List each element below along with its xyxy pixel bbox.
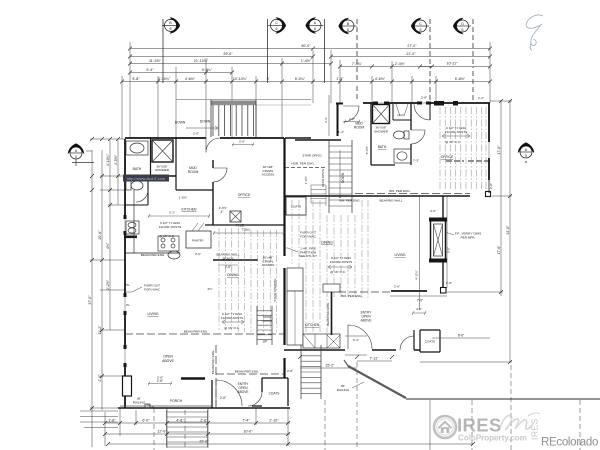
svg-text:6'-0": 6'-0" xyxy=(142,419,150,423)
svg-text:UP: UP xyxy=(263,340,267,344)
stair gray band xyxy=(211,101,256,106)
svg-text:ColoProperty.com: ColoProperty.com xyxy=(458,434,527,443)
svg-text:OPN'G: OPN'G xyxy=(262,319,272,323)
svg-text:FOR HVAC: FOR HVAC xyxy=(144,287,161,291)
left dim labels rotated xyxy=(88,153,118,381)
svg-text:4½": 4½" xyxy=(207,287,212,291)
svg-text:7'-3": 7'-3" xyxy=(413,159,419,163)
misc small interior dim labels left unit xyxy=(126,132,293,380)
dim line lowest row xyxy=(122,81,490,83)
left ext y260 xyxy=(90,259,125,261)
window glazing top right xyxy=(376,102,428,104)
dim line 9'-4 row xyxy=(130,72,232,74)
svg-text:ROOM: ROOM xyxy=(188,170,199,174)
dim line 50'-0" top xyxy=(130,48,490,50)
svg-text:ABOVE: ABOVE xyxy=(361,319,372,323)
svg-text:50'-0": 50'-0" xyxy=(301,44,311,48)
wall fp column x443 xyxy=(442,196,444,288)
beam dashed y334 xyxy=(125,333,284,335)
link box blue xyxy=(123,175,169,182)
left ext y205 xyxy=(108,204,125,206)
office R joists xyxy=(440,107,486,191)
stair arrow line xyxy=(186,126,218,130)
svg-text:8'-6": 8'-6" xyxy=(458,334,464,338)
leader furr L xyxy=(125,287,142,292)
left ext y376 xyxy=(100,375,125,377)
wall entry R east x415 xyxy=(413,330,415,350)
bottom vert dash x472 xyxy=(471,400,473,450)
svg-text:22'-0": 22'-0" xyxy=(199,440,209,444)
clo doors xyxy=(396,104,408,116)
stair R arrow xyxy=(338,150,342,198)
extension line x232 xyxy=(231,67,233,138)
right dim col x501 xyxy=(500,100,502,296)
svg-text:RAILING: RAILING xyxy=(133,400,146,404)
interior dim line 7-0 xyxy=(390,295,447,297)
svg-text:6: 6 xyxy=(462,28,464,32)
svg-text:DOWN: DOWN xyxy=(200,120,211,124)
drop line B2 xyxy=(356,19,358,101)
svg-text:6'-4": 6'-4" xyxy=(353,338,359,342)
wall bottom y408 xyxy=(118,407,290,409)
DIMENSION FRAMEWORK TOP xyxy=(122,42,490,139)
right ext y101 xyxy=(490,100,512,102)
bottom vert x136 xyxy=(135,410,137,425)
sink bath R xyxy=(394,149,411,163)
svg-text:7'-4": 7'-4" xyxy=(242,419,250,423)
svg-text:4'-6": 4'-6" xyxy=(416,307,422,311)
beam vertical x216 xyxy=(215,345,217,408)
wall toilet nook xyxy=(125,176,148,205)
svg-text:RAILING: RAILING xyxy=(337,388,350,392)
joist arrow dining L xyxy=(222,320,244,324)
marker C2 xyxy=(411,18,429,34)
svg-text:2'-6": 2'-6" xyxy=(225,265,231,269)
wall stairs R bottom y196 xyxy=(285,195,412,197)
interior dim line 8-6 xyxy=(432,337,490,339)
svg-text:@ 16" O.C.: @ 16" O.C. xyxy=(445,140,461,144)
svg-text:7'-0": 7'-0" xyxy=(417,299,423,303)
left ext y330 xyxy=(100,329,125,331)
porch post left xyxy=(123,376,132,396)
door arc coats L xyxy=(248,392,262,406)
svg-text:BM. PER ENG.: BM. PER ENG. xyxy=(339,199,360,203)
entry R dim row xyxy=(345,335,367,337)
door arc office L xyxy=(213,168,227,182)
svg-text:1'-4½": 1'-4½" xyxy=(301,59,312,63)
leader FP xyxy=(445,232,454,235)
watermark house icon xyxy=(438,422,451,428)
FIREPLACE xyxy=(429,218,447,263)
dim vline x447 living xyxy=(446,196,448,288)
svg-text:3'-1": 3'-1" xyxy=(169,211,175,215)
svg-text:5'-5½": 5'-5½" xyxy=(365,146,369,154)
kitchen lower counters R xyxy=(303,334,340,348)
wall top left y138 xyxy=(125,137,284,139)
svg-text:7'-0¼": 7'-0¼" xyxy=(241,228,250,232)
svg-text:17'-0": 17'-0" xyxy=(497,145,501,155)
svg-text:21'-0": 21'-0" xyxy=(406,52,416,56)
marker A left leader xyxy=(72,161,94,163)
svg-text:29'-0": 29'-0" xyxy=(223,52,233,56)
svg-text:FLOOR JOISTS: FLOOR JOISTS xyxy=(159,225,181,229)
DINING L joists xyxy=(219,228,277,332)
right ext y292 xyxy=(447,291,503,293)
marker A right leader xyxy=(446,161,526,163)
bottom vert dash x580 xyxy=(579,400,581,450)
bottom vert x167 xyxy=(166,408,168,448)
svg-text:34'-6": 34'-6" xyxy=(506,225,510,235)
kitchen stove R xyxy=(323,284,340,292)
wall office bottom y225 xyxy=(205,224,284,226)
svg-text:http://www.ArchT.com: http://www.ArchT.com xyxy=(127,176,166,181)
svg-text:BM. PER ENG.: BM. PER ENG. xyxy=(389,189,410,193)
marker drop lines xyxy=(163,19,473,101)
svg-text:STAIR OPN'G: STAIR OPN'G xyxy=(302,154,322,158)
wall right outer x489 xyxy=(488,103,490,180)
svg-text:4'-11½": 4'-11½" xyxy=(415,270,419,280)
svg-text:SHOWER: SHOWER xyxy=(374,129,389,133)
wall entry coats xyxy=(212,378,288,408)
porch post mid xyxy=(145,404,150,408)
wall clo R xyxy=(393,104,411,120)
small square x443 y288 xyxy=(441,288,447,294)
svg-text:@ 16" O.C.: @ 16" O.C. xyxy=(159,234,175,238)
svg-text:C: C xyxy=(419,22,422,26)
left ext y176 xyxy=(100,175,125,177)
door arc mudroom R xyxy=(343,106,359,122)
svg-text:9'-4": 9'-4" xyxy=(146,68,154,72)
extension line x392 xyxy=(391,61,393,103)
svg-text:2'-8": 2'-8" xyxy=(446,281,452,285)
extension line x282 xyxy=(281,58,283,138)
shower L xyxy=(152,140,173,162)
porch rail y406 xyxy=(120,405,212,407)
svg-text:IRES: IRES xyxy=(530,418,540,440)
svg-text:FOR HVAC: FOR HVAC xyxy=(300,234,317,238)
svg-text:2'-10¼": 2'-10¼" xyxy=(158,77,171,81)
svg-text:PORCH: PORCH xyxy=(170,399,183,403)
bottom vert x288 xyxy=(287,408,289,446)
wall bath divider x150 xyxy=(150,138,152,176)
STAIRS RIGHT xyxy=(329,140,352,213)
svg-text:BEAM PER ENG.: BEAM PER ENG. xyxy=(211,350,215,375)
svg-text:3'-6": 3'-6" xyxy=(324,117,328,123)
svg-text:7'-11": 7'-11" xyxy=(370,357,380,361)
bottom dim labels xyxy=(108,357,379,444)
svg-text:6'-8½": 6'-8½" xyxy=(455,77,466,81)
svg-text:CLO.: CLO. xyxy=(397,113,404,117)
shower R xyxy=(373,105,390,124)
signature squiggle xyxy=(526,15,543,50)
svg-text:SHOWER: SHOWER xyxy=(155,168,170,172)
stair sides xyxy=(211,100,256,137)
left ext y150 xyxy=(86,150,92,152)
svg-text:BATH: BATH xyxy=(378,145,387,149)
tick marks top dims xyxy=(120,47,492,84)
svg-text:6: 6 xyxy=(170,27,172,31)
svg-text:4'-5½": 4'-5½" xyxy=(114,154,118,165)
svg-text:BATH: BATH xyxy=(133,167,142,171)
wall pier kitchen left xyxy=(124,236,137,239)
svg-text:BEAM PER ENG.: BEAM PER ENG. xyxy=(235,370,260,374)
wall office left x213 xyxy=(212,160,214,225)
svg-text:6'-0": 6'-0" xyxy=(447,247,451,253)
wall bench y260 xyxy=(213,259,258,261)
dim line mid markers xyxy=(282,63,331,65)
coats R closet xyxy=(286,197,306,215)
extension line x372 xyxy=(371,76,373,103)
door arc entry R xyxy=(348,325,372,349)
bottom dim row1 y423 xyxy=(105,422,290,424)
svg-text:2'-6": 2'-6" xyxy=(220,396,226,400)
svg-text:OFFICE: OFFICE xyxy=(441,155,454,159)
KITCHEN R counters xyxy=(287,268,340,348)
svg-text:2'-2": 2'-2" xyxy=(478,96,484,100)
door arc toilet nook xyxy=(136,190,148,202)
svg-text:5'-8": 5'-8" xyxy=(132,77,140,81)
svg-text:PANTRY: PANTRY xyxy=(192,239,204,243)
left dim col x118 xyxy=(117,140,119,205)
joist arrow dining R xyxy=(328,265,352,269)
interior dim chain mud L xyxy=(232,143,254,147)
extension line x256 xyxy=(255,76,257,136)
wall porch beam y380 xyxy=(181,377,205,379)
wall living R bottom y291 xyxy=(391,290,427,292)
svg-text:2'-8": 2'-8" xyxy=(157,376,163,380)
kitchen island R xyxy=(287,268,303,291)
beam wall vertical x331 xyxy=(331,292,333,335)
interior dim chain kitchen L xyxy=(148,214,210,218)
railing diagonal inner xyxy=(344,360,348,366)
interior dim chain porch xyxy=(148,382,172,386)
svg-text:@ 16" O.C.: @ 16" O.C. xyxy=(224,326,240,330)
interior dim line 6-4 xyxy=(345,354,367,356)
bottom vert x105 xyxy=(104,412,106,446)
svg-text:4'-6½": 4'-6½" xyxy=(375,77,386,81)
bottom vert dash x511 xyxy=(510,365,512,450)
svg-text:2'-8": 2'-8" xyxy=(489,183,493,189)
bottom dim row2 y434 xyxy=(105,433,290,435)
bottom dim right y362b xyxy=(300,367,357,369)
left ticks xyxy=(90,137,120,410)
joist arrow office R xyxy=(442,134,470,138)
svg-text:DOWN: DOWN xyxy=(175,121,186,125)
marker A1 xyxy=(305,17,323,33)
svg-text:FLUE: FLUE xyxy=(236,224,245,228)
extension line left edge xyxy=(129,42,131,139)
wall kitchen bottom y253 xyxy=(125,252,180,254)
svg-text:SEE DTL 5/7: SEE DTL 5/7 xyxy=(299,254,317,258)
wall mudroom R west x337.5 xyxy=(336,104,343,137)
dark corner block top right2 xyxy=(453,101,458,106)
window sill blocks top right wall xyxy=(373,102,431,105)
PANTRY xyxy=(186,223,211,248)
svg-text:17'-6": 17'-6" xyxy=(497,245,501,255)
svg-text:2'-10": 2'-10" xyxy=(269,419,279,423)
bottom vert dash x430 xyxy=(429,400,431,450)
dim line 21'-0" right xyxy=(331,56,490,58)
right ext y362 xyxy=(420,361,512,363)
dim vline x329 mudroom xyxy=(328,95,330,136)
beam dashed y374 xyxy=(216,373,284,375)
bottom vert x256 xyxy=(255,408,257,425)
toilet bath L xyxy=(126,181,143,190)
svg-text:2'-8": 2'-8" xyxy=(349,117,355,121)
svg-text:5: 5 xyxy=(525,154,527,158)
door arc mudroom L xyxy=(206,138,220,153)
svg-text:4'-6½": 4'-6½" xyxy=(185,77,196,81)
marker B1 xyxy=(162,17,180,33)
marker A left xyxy=(68,143,84,159)
interior dim chain office L xyxy=(213,231,285,235)
svg-text:20'-6": 20'-6" xyxy=(98,230,102,240)
svg-text:COATS: COATS xyxy=(269,392,280,396)
dark corner block top right xyxy=(434,101,444,106)
drop line B1 xyxy=(162,19,164,83)
wall office R bottom y196 xyxy=(412,195,470,197)
svg-text:BM. PER ENG.: BM. PER ENG. xyxy=(341,294,362,298)
interior dim chain entry R xyxy=(412,311,426,315)
svg-text:10'-10¼": 10'-10¼" xyxy=(233,77,248,81)
right ticks xyxy=(499,99,512,364)
marker D1 xyxy=(453,18,471,34)
right dim col x510 xyxy=(509,100,511,362)
left ext y408 xyxy=(90,407,120,409)
wall left outer x125 xyxy=(124,139,126,408)
KITCHEN L xyxy=(126,190,180,259)
extension line x436 xyxy=(435,76,437,103)
svg-text:6: 6 xyxy=(276,27,278,31)
extension line x158 xyxy=(157,76,159,139)
extension line x412 xyxy=(411,76,413,103)
top dimension labels xyxy=(132,44,465,81)
svg-text:2'-6": 2'-6" xyxy=(239,140,245,144)
wall entry R bottom y350 xyxy=(284,349,420,351)
drop line A1 xyxy=(324,19,326,83)
dim line right wing upper xyxy=(340,66,432,68)
svg-text:21'-10¾": 21'-10¾" xyxy=(194,59,209,63)
svg-text:10'-11": 10'-11" xyxy=(447,62,459,66)
svg-text:4'-0½": 4'-0½" xyxy=(219,206,227,210)
stair rail line y99 xyxy=(176,99,311,101)
extension line right edge x490 xyxy=(489,42,491,103)
drop line C1 xyxy=(267,19,269,83)
svg-text:27'-0": 27'-0" xyxy=(407,44,417,48)
window glazing right wall xyxy=(488,142,490,158)
svg-text:2'-8": 2'-8" xyxy=(421,96,427,100)
bottom vert dash x325 xyxy=(324,400,326,450)
extension line x206 xyxy=(205,58,207,138)
window glazing left wall xyxy=(124,218,126,366)
interior dim chain mud R xyxy=(344,120,360,124)
wall top right y103 xyxy=(363,102,490,104)
svg-text:4'-6": 4'-6" xyxy=(430,209,436,213)
bench dim line xyxy=(218,264,238,266)
kitchen sink L xyxy=(126,221,139,234)
wall bath R east x411 xyxy=(410,103,412,165)
door arc hall top R xyxy=(414,104,430,120)
kitchen cabinets column R xyxy=(287,291,303,345)
RIGHT SIDE DIMENSIONS xyxy=(420,100,512,362)
left ext y139 xyxy=(90,138,125,140)
drop line C2 xyxy=(429,19,431,100)
right dim labels xyxy=(497,145,510,255)
hall small treads xyxy=(311,185,326,206)
stairs R2 bottom xyxy=(301,345,321,399)
marker B2 xyxy=(338,18,356,34)
svg-text:BEAM PER ENG.: BEAM PER ENG. xyxy=(184,330,209,334)
kitchen counter line xyxy=(133,190,135,253)
svg-text:DINING: DINING xyxy=(321,241,333,245)
svg-text:BEAM PER ENG.: BEAM PER ENG. xyxy=(326,302,330,326)
bottom vert dash x154 xyxy=(153,408,155,450)
stair treads L xyxy=(213,105,254,136)
extension line x176 xyxy=(175,67,177,138)
extension line x340 xyxy=(339,60,341,103)
svg-text:37'-0": 37'-0" xyxy=(88,295,92,305)
svg-text:REcolorado: REcolorado xyxy=(541,437,598,449)
svg-text:1'-6½": 1'-6½" xyxy=(179,196,187,200)
svg-text:DOWN: DOWN xyxy=(341,172,345,183)
svg-text:PL: PL xyxy=(126,303,130,307)
svg-text:IRES: IRES xyxy=(457,415,502,436)
svg-text:6'-0¼": 6'-0¼" xyxy=(295,77,306,81)
svg-text:11'-4½": 11'-4½" xyxy=(149,59,162,63)
hdr dashed line xyxy=(285,167,327,169)
leader railing L xyxy=(146,404,156,408)
dim line 21'-10 xyxy=(130,63,282,65)
bottom-left steps xyxy=(80,411,118,428)
svg-text:FLOOR JOISTS: FLOOR JOISTS xyxy=(445,130,467,134)
wall right lower x489 xyxy=(488,180,490,193)
svg-text:PL: PL xyxy=(126,283,130,287)
small square x487 y193 xyxy=(486,192,491,197)
marker A right xyxy=(518,142,534,158)
svg-text:C: C xyxy=(275,21,278,25)
center steps bottom xyxy=(167,410,208,447)
svg-text:2'-0": 2'-0" xyxy=(98,374,102,382)
svg-text:STAIR OPENING: STAIR OPENING xyxy=(273,278,277,302)
svg-text:15'-2": 15'-2" xyxy=(325,364,335,368)
wall mudroom right x176 xyxy=(176,138,213,190)
svg-text:4": 4" xyxy=(221,210,224,214)
svg-text:ABOVE: ABOVE xyxy=(238,390,249,394)
svg-text:2'-8": 2'-8" xyxy=(287,369,293,373)
svg-text:4½": 4½" xyxy=(106,242,110,249)
svg-text:KITCHEN: KITCHEN xyxy=(305,323,320,327)
dim line 29'-0" xyxy=(130,56,313,58)
svg-text:BEARING WALL: BEARING WALL xyxy=(379,199,402,203)
svg-text:PER MFR.: PER MFR. xyxy=(461,235,476,239)
long base line right y399 xyxy=(406,398,600,400)
svg-text:STAIR OPN'G: STAIR OPN'G xyxy=(321,168,325,187)
window sill blocks left wall xyxy=(124,215,127,367)
bottom vert x208 xyxy=(207,408,209,448)
svg-text:2'-6": 2'-6" xyxy=(193,132,199,136)
svg-text:2'-4½": 2'-4½" xyxy=(395,62,406,66)
toilet bath R xyxy=(394,131,410,139)
sink oval bath L xyxy=(126,141,148,155)
bottom vert x120 xyxy=(119,408,121,436)
door arc bath hall R xyxy=(411,130,425,144)
wall bath bottom y176 xyxy=(125,175,176,177)
bottom dim right y361 xyxy=(357,360,392,362)
svg-text:6: 6 xyxy=(347,28,349,32)
svg-text:COATS: COATS xyxy=(291,205,301,209)
wall bath R bottom y165 xyxy=(371,164,395,166)
marker C1 xyxy=(268,17,286,33)
